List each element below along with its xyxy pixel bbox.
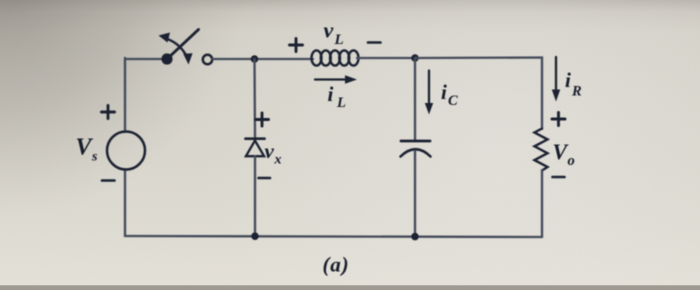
- wire: bottom rail: [125, 236, 542, 237]
- polarity - of Vs: [102, 179, 115, 182]
- svg-text:i: i: [328, 82, 334, 106]
- wire: top rail from switch throw to inductor left: [213, 58, 314, 60]
- svg-text:o: o: [568, 153, 575, 169]
- current arrow iC head: [425, 103, 433, 115]
- current arrow iR shaft: [555, 57, 557, 90]
- resistor R zigzag: [535, 129, 548, 171]
- svg-text:s: s: [91, 150, 98, 165]
- current arrow iL head: [345, 75, 357, 84]
- polarity + of Vs: [102, 106, 115, 119]
- svg-text:v: v: [324, 18, 334, 43]
- wire: top rail from capacitor junction to top-right corner and down to resistor: [415, 58, 542, 130]
- junction node at capacitor branch top: [411, 54, 419, 62]
- switch motion arrow shaft: [166, 39, 187, 57]
- wire: left vertical from source bottom to bottom-left corner: [124, 169, 126, 236]
- wire: diode branch upper: [253, 59, 256, 138]
- wire: top rail from inductor right to capacitor junction: [357, 57, 415, 59]
- switch blade: [167, 30, 199, 60]
- wire: capacitor branch lower: [414, 151, 416, 237]
- voltage source Vs: [107, 132, 145, 170]
- svg-text:C: C: [448, 93, 458, 109]
- current arrow iL shaft: [315, 78, 347, 80]
- svg-text:(a): (a): [323, 253, 350, 277]
- diode (anode triangle): [246, 141, 264, 157]
- wire: top-left horizontal from corner to switch pole: [125, 58, 162, 60]
- current arrow iC shaft: [428, 71, 430, 105]
- junction node at diode branch bottom: [251, 232, 259, 240]
- polarity - of vx: [259, 177, 271, 180]
- capacitor C top plate: [401, 140, 430, 143]
- svg-text:R: R: [571, 84, 582, 100]
- wire: capacitor branch upper: [414, 58, 416, 140]
- svg-text:V: V: [76, 135, 94, 161]
- diode (cathode bar): [246, 137, 265, 140]
- switch motion arrow head lower: [183, 53, 192, 64]
- junction node at capacitor branch bottom: [411, 233, 419, 241]
- svg-text:x: x: [274, 153, 282, 168]
- wire: diode branch lower: [254, 156, 256, 236]
- polarity + of Vo: [552, 113, 565, 126]
- switch motion arrow head upper-left: [159, 33, 171, 43]
- junction node at diode branch top: [251, 55, 259, 63]
- svg-text:i: i: [565, 68, 571, 92]
- polarity - of vL: [368, 41, 381, 44]
- inductor L coil: [312, 50, 359, 65]
- switch pole dot (node between Vs and switch): [161, 53, 172, 64]
- switch throw terminal (open circle): [203, 55, 212, 64]
- svg-text:i: i: [441, 80, 447, 104]
- wire: left vertical from top-left corner down to source top: [124, 58, 126, 132]
- wire: right branch from resistor bottom to bottom-right corner: [541, 170, 543, 237]
- svg-text:v: v: [265, 139, 275, 163]
- polarity - of Vo: [553, 176, 565, 179]
- current arrow iR head: [552, 90, 560, 102]
- svg-text:L: L: [334, 32, 344, 48]
- capacitor C curved plate: [401, 149, 431, 156]
- polarity + of vL: [290, 39, 303, 52]
- polarity + of vx: [256, 113, 269, 126]
- svg-text:L: L: [336, 95, 346, 111]
